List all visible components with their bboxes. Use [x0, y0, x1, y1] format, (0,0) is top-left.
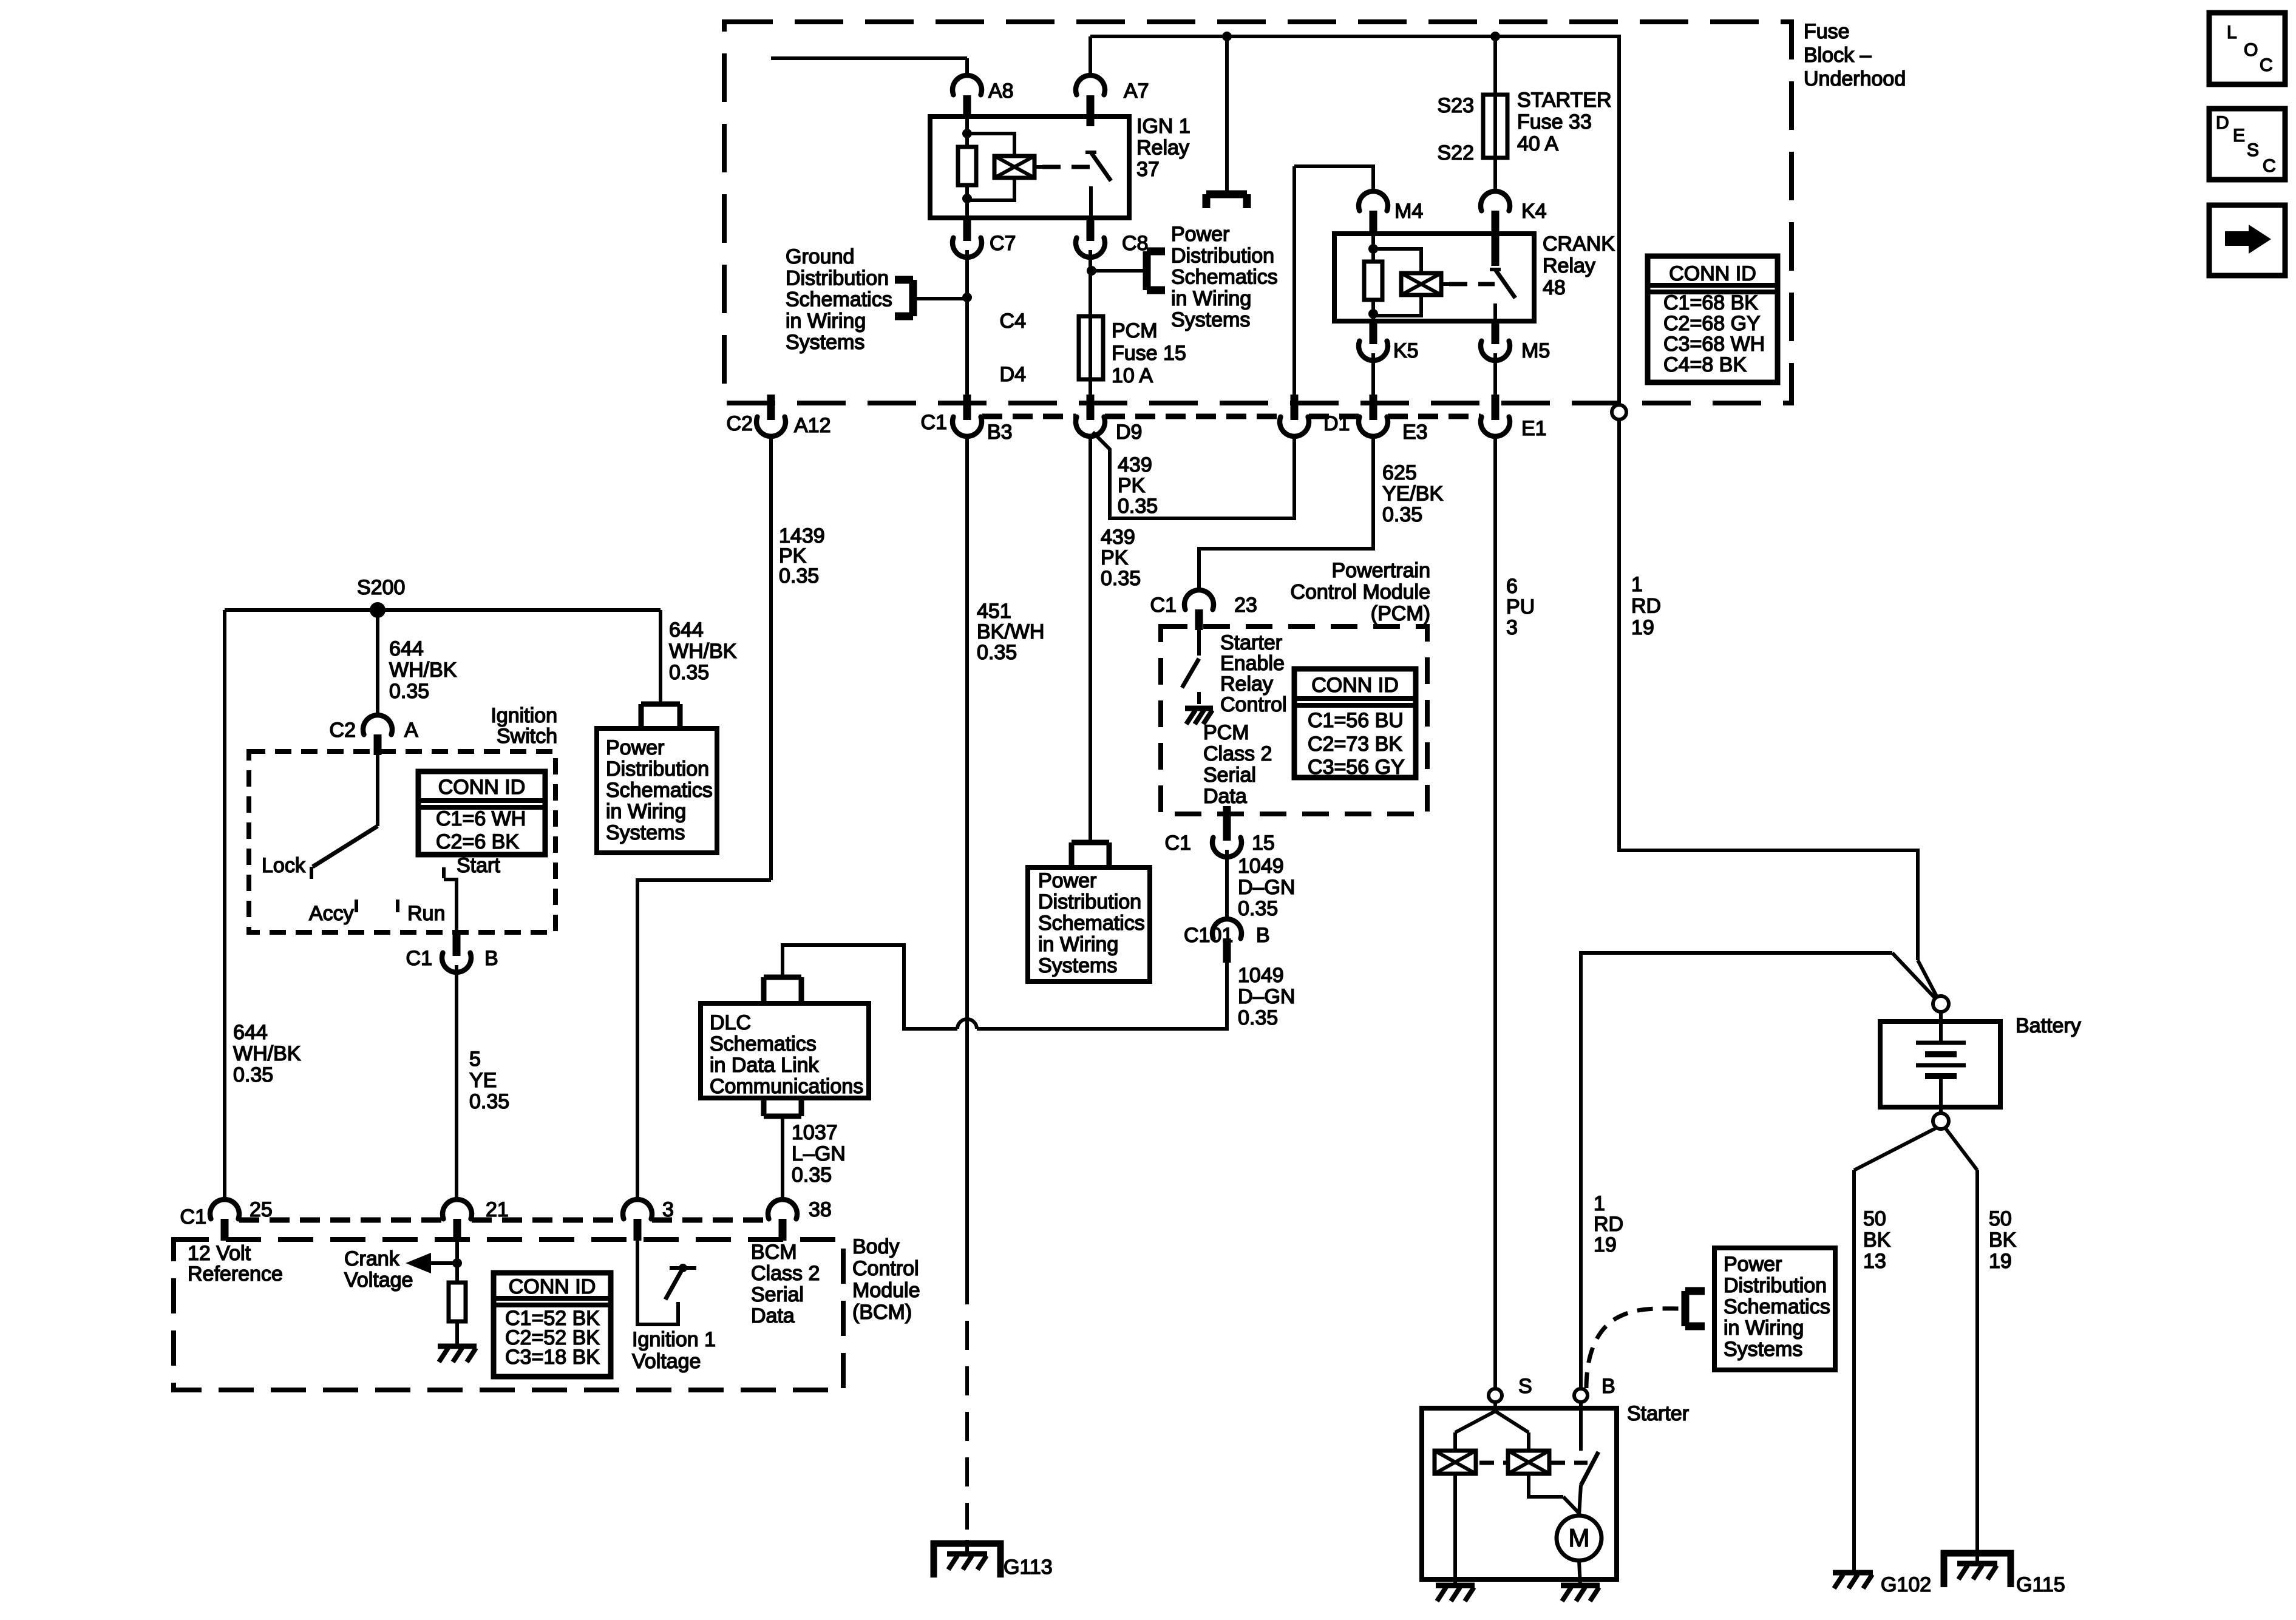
svg-text:C4: C4	[1000, 310, 1026, 333]
svg-text:0.35: 0.35	[389, 680, 429, 703]
svg-text:RD: RD	[1631, 595, 1661, 618]
svg-text:Distribution: Distribution	[606, 757, 709, 781]
svg-text:B: B	[484, 947, 498, 970]
svg-text:1037: 1037	[792, 1121, 838, 1144]
svg-text:M5: M5	[1521, 339, 1550, 362]
svg-text:0.35: 0.35	[1382, 503, 1422, 526]
svg-text:YE/BK: YE/BK	[1382, 483, 1443, 506]
svg-text:WH/BK: WH/BK	[233, 1042, 301, 1065]
svg-text:Underhood: Underhood	[1804, 67, 1906, 90]
svg-text:E1: E1	[1521, 417, 1547, 440]
svg-text:Block –: Block –	[1804, 44, 1872, 67]
svg-text:0.35: 0.35	[469, 1090, 509, 1113]
svg-text:PCM: PCM	[1112, 319, 1158, 342]
svg-text:Schematics: Schematics	[786, 288, 892, 311]
svg-text:S200: S200	[357, 576, 405, 599]
svg-text:Schematics: Schematics	[1171, 266, 1278, 289]
svg-text:Ground: Ground	[786, 245, 854, 268]
svg-text:Serial: Serial	[751, 1283, 804, 1306]
svg-text:Systems: Systems	[606, 821, 685, 844]
svg-text:Control Module: Control Module	[1290, 581, 1430, 604]
svg-text:C3=68 WH: C3=68 WH	[1663, 333, 1765, 356]
svg-text:Start: Start	[457, 854, 500, 877]
svg-text:CONN ID: CONN ID	[1669, 262, 1756, 285]
svg-text:644: 644	[669, 619, 704, 642]
svg-text:3: 3	[662, 1198, 674, 1221]
svg-text:C3=18 BK: C3=18 BK	[505, 1346, 600, 1369]
svg-text:19: 19	[1989, 1250, 2012, 1273]
svg-text:in Wiring: in Wiring	[1171, 287, 1251, 310]
svg-text:Fuse 15: Fuse 15	[1112, 342, 1186, 365]
svg-text:D4: D4	[1000, 363, 1026, 386]
svg-text:Schematics: Schematics	[710, 1032, 817, 1056]
svg-text:PU: PU	[1506, 595, 1535, 619]
svg-text:0.35: 0.35	[669, 661, 709, 684]
svg-text:Class 2: Class 2	[1203, 742, 1272, 765]
svg-text:439: 439	[1118, 453, 1152, 476]
svg-text:13: 13	[1863, 1250, 1886, 1273]
svg-text:IGN 1: IGN 1	[1136, 115, 1190, 138]
svg-text:L: L	[2227, 22, 2237, 42]
svg-text:12 Volt: 12 Volt	[188, 1242, 251, 1265]
svg-text:Relay: Relay	[1136, 137, 1189, 160]
svg-text:PK: PK	[1101, 546, 1129, 569]
svg-text:Systems: Systems	[1038, 954, 1117, 977]
svg-text:0.35: 0.35	[779, 564, 819, 588]
svg-text:Fuse: Fuse	[1804, 20, 1850, 43]
svg-text:C2=68 GY: C2=68 GY	[1663, 312, 1761, 335]
svg-text:CONN ID: CONN ID	[509, 1275, 596, 1298]
svg-text:Voltage: Voltage	[632, 1350, 701, 1373]
svg-text:Communications: Communications	[710, 1075, 863, 1098]
svg-text:STARTER: STARTER	[1517, 89, 1612, 112]
svg-text:Voltage: Voltage	[344, 1269, 413, 1292]
svg-text:(BCM): (BCM)	[852, 1301, 912, 1324]
svg-text:C2=6 BK: C2=6 BK	[436, 830, 519, 853]
svg-text:Lock: Lock	[262, 854, 306, 877]
svg-text:644: 644	[389, 637, 424, 660]
svg-text:Serial: Serial	[1203, 764, 1256, 787]
svg-text:G115: G115	[2016, 1573, 2065, 1596]
svg-text:M: M	[1569, 1523, 1590, 1552]
svg-text:C1: C1	[1150, 594, 1177, 617]
svg-text:Control: Control	[852, 1257, 919, 1280]
svg-text:19: 19	[1631, 616, 1654, 639]
svg-text:in Wiring: in Wiring	[786, 310, 866, 333]
svg-text:C: C	[2260, 55, 2273, 75]
svg-text:CONN ID: CONN ID	[1311, 674, 1399, 697]
svg-text:Relay: Relay	[1543, 254, 1595, 277]
svg-text:Crank: Crank	[344, 1247, 400, 1270]
svg-text:Power: Power	[1038, 869, 1096, 892]
svg-text:38: 38	[809, 1198, 832, 1221]
svg-text:WH/BK: WH/BK	[389, 659, 457, 682]
svg-text:G102: G102	[1881, 1573, 1931, 1596]
svg-text:YE: YE	[469, 1069, 497, 1092]
svg-text:C1=6 WH: C1=6 WH	[436, 807, 526, 830]
svg-text:10 A: 10 A	[1112, 364, 1153, 387]
svg-text:Power: Power	[606, 736, 664, 759]
svg-text:Starter: Starter	[1627, 1402, 1689, 1425]
svg-text:23: 23	[1234, 594, 1257, 617]
svg-text:A8: A8	[988, 80, 1014, 103]
svg-text:Ignition: Ignition	[491, 704, 557, 727]
svg-text:CRANK: CRANK	[1543, 232, 1615, 256]
svg-text:E: E	[2233, 126, 2245, 146]
svg-text:Power: Power	[1171, 223, 1229, 246]
svg-text:Systems: Systems	[1724, 1338, 1802, 1361]
svg-text:Data: Data	[751, 1304, 795, 1327]
svg-text:0.35: 0.35	[977, 641, 1017, 664]
svg-text:C1: C1	[406, 947, 432, 970]
svg-text:C: C	[2263, 156, 2276, 176]
svg-text:K5: K5	[1393, 339, 1419, 362]
svg-text:Distribution: Distribution	[1171, 244, 1274, 267]
svg-text:50: 50	[1863, 1207, 1886, 1230]
svg-text:40 A: 40 A	[1517, 132, 1558, 155]
svg-text:Accy: Accy	[309, 902, 354, 925]
svg-text:Distribution: Distribution	[1038, 890, 1141, 913]
svg-text:D9: D9	[1116, 421, 1142, 444]
svg-text:RD: RD	[1594, 1213, 1623, 1236]
svg-text:1049: 1049	[1238, 855, 1284, 878]
svg-text:0.35: 0.35	[1238, 1006, 1278, 1029]
svg-text:439: 439	[1101, 526, 1135, 549]
svg-text:A12: A12	[794, 414, 831, 437]
svg-text:D: D	[2216, 113, 2229, 133]
svg-text:BCM: BCM	[751, 1241, 797, 1264]
svg-text:Class 2: Class 2	[751, 1262, 820, 1285]
svg-text:Switch: Switch	[497, 725, 557, 748]
svg-text:C1: C1	[180, 1205, 206, 1229]
svg-text:C1=68 BK: C1=68 BK	[1663, 291, 1758, 314]
svg-text:Run: Run	[407, 902, 445, 925]
svg-text:Module: Module	[852, 1279, 920, 1302]
svg-text:B: B	[1256, 924, 1270, 947]
svg-text:PK: PK	[1118, 474, 1146, 497]
svg-text:BK: BK	[1989, 1229, 2017, 1252]
svg-text:6: 6	[1506, 575, 1518, 598]
svg-text:15: 15	[1252, 832, 1275, 855]
svg-text:C1: C1	[921, 411, 947, 434]
svg-text:21: 21	[486, 1198, 509, 1221]
svg-text:5: 5	[469, 1048, 481, 1071]
svg-text:625: 625	[1382, 461, 1417, 484]
svg-text:50: 50	[1989, 1207, 2012, 1230]
svg-text:0.35: 0.35	[233, 1063, 273, 1086]
svg-text:Reference: Reference	[188, 1262, 283, 1286]
svg-text:M4: M4	[1394, 200, 1423, 223]
svg-text:Starter: Starter	[1220, 631, 1282, 654]
svg-text:DLC: DLC	[710, 1011, 751, 1034]
svg-text:BK: BK	[1863, 1229, 1891, 1252]
svg-text:Power: Power	[1724, 1253, 1782, 1276]
svg-text:S22: S22	[1438, 141, 1475, 164]
svg-text:in Wiring: in Wiring	[1038, 933, 1118, 956]
svg-text:Enable: Enable	[1220, 652, 1285, 675]
svg-text:Battery: Battery	[2016, 1014, 2081, 1037]
svg-text:Relay: Relay	[1220, 673, 1273, 696]
svg-text:in Data Link: in Data Link	[710, 1054, 820, 1077]
svg-text:(PCM): (PCM)	[1371, 602, 1430, 625]
svg-text:Data: Data	[1203, 785, 1247, 808]
svg-text:C2: C2	[330, 719, 356, 742]
svg-text:C1=56 BU: C1=56 BU	[1308, 709, 1404, 732]
svg-text:Body: Body	[852, 1235, 900, 1258]
svg-text:S: S	[2247, 140, 2259, 160]
svg-text:PCM: PCM	[1203, 721, 1249, 744]
svg-text:Control: Control	[1220, 693, 1287, 716]
svg-text:A: A	[404, 719, 418, 742]
svg-text:1: 1	[1594, 1192, 1605, 1215]
svg-text:D1: D1	[1323, 412, 1350, 435]
svg-text:WH/BK: WH/BK	[669, 640, 737, 663]
svg-text:Schematics: Schematics	[606, 779, 713, 802]
svg-text:G113: G113	[1004, 1556, 1053, 1579]
svg-text:D–GN: D–GN	[1238, 876, 1295, 899]
svg-text:in Wiring: in Wiring	[1724, 1317, 1804, 1340]
svg-text:E3: E3	[1402, 421, 1428, 444]
svg-text:1: 1	[1631, 573, 1643, 596]
svg-text:Systems: Systems	[1171, 308, 1250, 331]
svg-text:Systems: Systems	[786, 331, 864, 354]
svg-text:0.35: 0.35	[792, 1164, 832, 1187]
svg-text:S23: S23	[1438, 94, 1475, 117]
svg-text:19: 19	[1594, 1233, 1617, 1256]
svg-text:37: 37	[1136, 158, 1160, 181]
svg-text:Fuse 33: Fuse 33	[1517, 110, 1592, 134]
svg-text:Schematics: Schematics	[1038, 912, 1145, 935]
svg-text:L–GN: L–GN	[792, 1142, 846, 1165]
svg-text:B: B	[1601, 1375, 1615, 1398]
svg-text:451: 451	[977, 600, 1011, 623]
svg-text:D–GN: D–GN	[1238, 985, 1295, 1008]
svg-text:3: 3	[1506, 616, 1518, 639]
svg-text:C3=56 GY: C3=56 GY	[1308, 756, 1405, 779]
svg-text:25: 25	[250, 1198, 273, 1221]
svg-text:A7: A7	[1124, 80, 1149, 103]
svg-text:CONN ID: CONN ID	[438, 776, 526, 799]
svg-text:C2: C2	[727, 412, 753, 435]
svg-text:1049: 1049	[1238, 964, 1284, 987]
svg-text:B3: B3	[987, 421, 1013, 444]
svg-text:644: 644	[233, 1021, 268, 1044]
svg-text:K4: K4	[1521, 200, 1547, 223]
svg-text:C4=8 BK: C4=8 BK	[1663, 353, 1747, 376]
svg-text:in Wiring: in Wiring	[606, 800, 686, 823]
svg-text:C7: C7	[990, 232, 1016, 255]
svg-text:0.35: 0.35	[1118, 495, 1158, 518]
svg-text:0.35: 0.35	[1238, 897, 1278, 920]
svg-text:S: S	[1518, 1375, 1532, 1398]
svg-text:C2=73 BK: C2=73 BK	[1308, 733, 1402, 756]
svg-text:Schematics: Schematics	[1724, 1295, 1830, 1318]
svg-text:Distribution: Distribution	[1724, 1274, 1827, 1297]
svg-text:O: O	[2244, 40, 2258, 60]
svg-text:C1: C1	[1165, 832, 1191, 855]
svg-text:Distribution: Distribution	[786, 266, 889, 290]
svg-text:Powertrain: Powertrain	[1331, 559, 1430, 582]
svg-text:BK/WH: BK/WH	[977, 620, 1044, 643]
svg-text:48: 48	[1543, 276, 1566, 299]
svg-text:Ignition 1: Ignition 1	[632, 1328, 716, 1351]
svg-text:0.35: 0.35	[1101, 567, 1141, 590]
